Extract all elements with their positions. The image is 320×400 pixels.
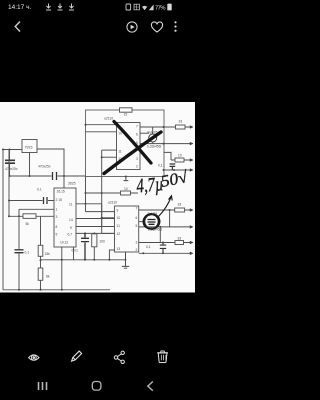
wire lower IC pin12 bbox=[102, 232, 115, 234]
wire 3525 pin14 to pin10 bbox=[76, 218, 115, 220]
wire mid rail W2 bbox=[10, 175, 86, 177]
IC U1 2110 upper bbox=[117, 123, 141, 170]
regulator U3 7915 bbox=[22, 140, 37, 153]
svg-text:1: 1 bbox=[56, 208, 58, 212]
junction dot bbox=[61, 289, 63, 291]
junction dot bbox=[18, 289, 20, 291]
node input B bbox=[9, 149, 11, 151]
svg-text:10,12: 10,12 bbox=[60, 241, 68, 245]
wire pin7 out with R 33 bbox=[140, 126, 190, 128]
junction dot bbox=[40, 289, 42, 291]
right icons bbox=[126, 4, 172, 12]
app bar bbox=[15, 21, 176, 32]
wire IC pin11 bbox=[102, 149, 117, 151]
eye bbox=[29, 355, 39, 360]
wire regulator ground pin bbox=[29, 153, 31, 177]
svg-text:33: 33 bbox=[179, 120, 183, 124]
arrow out 5 bbox=[190, 209, 193, 212]
wire bus to pin11 bbox=[76, 226, 115, 228]
wire pin3 with 5k bbox=[9, 215, 54, 217]
svg-text:7915: 7915 bbox=[25, 146, 33, 150]
svg-text:77%: 77% bbox=[155, 5, 166, 11]
wire out 3 with R 10 bbox=[164, 152, 191, 160]
junction dot bbox=[61, 259, 63, 261]
capacitor C7 0.1 bbox=[160, 243, 166, 254]
svg-text:2: 2 bbox=[136, 165, 138, 169]
bus x101 lower segment bbox=[101, 204, 103, 227]
junction dot bbox=[85, 124, 87, 126]
wire out 7 with R 33 bbox=[139, 242, 190, 244]
X stroke B bbox=[114, 122, 151, 164]
svg-text:14:17 ч.: 14:17 ч. bbox=[8, 4, 31, 11]
svg-text:0,1: 0,1 bbox=[37, 188, 42, 192]
rail out 8 bbox=[139, 252, 190, 254]
junction dot bbox=[85, 192, 87, 194]
wire bottom out rail bbox=[164, 169, 191, 171]
svg-text:33: 33 bbox=[178, 237, 182, 241]
wire into 3525 top bbox=[63, 176, 65, 188]
resistor R5 33 bbox=[176, 125, 186, 129]
wire left rail V1 bbox=[2, 150, 4, 290]
resistor R1 5k bbox=[23, 214, 36, 219]
svg-text:14: 14 bbox=[69, 218, 73, 222]
junction dot bbox=[84, 259, 86, 261]
arrow out 2 bbox=[190, 142, 193, 145]
svg-text:15k: 15k bbox=[45, 252, 51, 256]
svg-text:3: 3 bbox=[136, 157, 138, 161]
arrow out 7 bbox=[190, 241, 193, 244]
photo / schematic area bbox=[0, 102, 195, 293]
junction dot bbox=[125, 259, 127, 261]
svg-text:0,01: 0,01 bbox=[72, 249, 79, 253]
svg-text:6: 6 bbox=[136, 216, 138, 220]
wire mid with R 10 bbox=[86, 192, 139, 194]
node input A bbox=[2, 149, 4, 151]
svg-text:3: 3 bbox=[136, 241, 138, 245]
arrow out 8 bbox=[190, 252, 193, 255]
heart bbox=[151, 22, 162, 32]
wire lower IC pin10 bbox=[102, 217, 115, 219]
capacitor C1 wire bbox=[9, 150, 11, 177]
transistor Q2 BUV26 bbox=[145, 215, 159, 229]
resistor R3 8k bbox=[38, 268, 43, 280]
resistor R6 10 bbox=[175, 158, 184, 162]
junction dot bbox=[93, 259, 95, 261]
svg-text:0,1: 0,1 bbox=[146, 245, 151, 249]
arrow out 6 bbox=[190, 226, 193, 229]
svg-text:3525: 3525 bbox=[68, 182, 76, 186]
bottom rail bbox=[3, 289, 110, 291]
wire out 5 with R 33 bbox=[139, 209, 190, 211]
junction dot bbox=[8, 215, 10, 217]
junction dot bbox=[85, 203, 87, 205]
resistor R4 100 bbox=[92, 234, 97, 247]
wire Q2 emitter link bbox=[159, 227, 161, 243]
svg-text:470x25v: 470x25v bbox=[5, 167, 18, 171]
IC U4 2110 lower bbox=[115, 206, 139, 252]
junction dot bbox=[93, 232, 95, 234]
wire 3525 pin6,7 out bbox=[76, 232, 115, 234]
ground lower IC bbox=[122, 252, 129, 268]
resistor R9 33 bbox=[175, 241, 184, 245]
share bbox=[114, 351, 124, 363]
wire transistor collector upper bbox=[152, 127, 154, 134]
motion photo icon bbox=[127, 22, 137, 32]
svg-text:11: 11 bbox=[117, 224, 121, 228]
svg-text:9: 9 bbox=[117, 209, 119, 213]
svg-text:0,33x45Ω: 0,33x45Ω bbox=[147, 145, 162, 149]
svg-text:3: 3 bbox=[56, 215, 58, 219]
ground upper module bbox=[124, 177, 129, 181]
junction dot bbox=[159, 226, 161, 228]
junction dot bbox=[142, 252, 144, 254]
wire R4 leads bbox=[93, 247, 95, 260]
svg-text:0,1: 0,1 bbox=[158, 164, 163, 168]
wire C3 to pin2 bbox=[9, 200, 54, 202]
junction dot bbox=[101, 217, 103, 219]
arrow out 3 bbox=[190, 159, 193, 162]
annotation circle around Q2 bbox=[142, 213, 160, 230]
wire 3525 pin11 out bbox=[76, 203, 102, 205]
svg-text:7: 7 bbox=[136, 207, 138, 211]
download icon 1 bbox=[46, 4, 74, 11]
junction dot bbox=[29, 175, 31, 177]
svg-text:u2110: u2110 bbox=[104, 117, 113, 121]
arrow out 4 bbox=[190, 169, 193, 172]
junction dot bbox=[101, 192, 103, 194]
junction dot bbox=[125, 176, 127, 178]
wire pin13 jog bbox=[109, 250, 114, 260]
svg-text:10: 10 bbox=[117, 216, 121, 220]
junction dot bbox=[84, 232, 86, 234]
svg-text:0,1: 0,1 bbox=[25, 251, 30, 255]
wire left bus down bbox=[85, 177, 87, 212]
junction dot bbox=[9, 175, 11, 177]
junction dot bbox=[163, 169, 165, 171]
junction dot bbox=[169, 209, 171, 211]
wire lower IC pin9 bbox=[86, 211, 115, 213]
svg-text:12: 12 bbox=[117, 232, 121, 236]
svg-text:10: 10 bbox=[118, 132, 122, 136]
junction dot bbox=[108, 259, 110, 261]
pencil bbox=[70, 351, 81, 362]
nav bar bbox=[39, 382, 153, 391]
svg-text:2: 2 bbox=[136, 248, 138, 252]
X stroke A bbox=[104, 132, 161, 174]
capacitor C3 0.1 bbox=[44, 197, 48, 204]
wire divider bottom bbox=[40, 280, 42, 290]
capacitor C1 470x25v bbox=[5, 160, 15, 163]
wire 19 down to C5 bbox=[18, 209, 20, 289]
svg-text:5k: 5k bbox=[26, 222, 30, 226]
wire IC pin12 bbox=[102, 156, 117, 158]
svg-text:10: 10 bbox=[124, 187, 128, 191]
upper module box bbox=[86, 110, 165, 177]
junction dot bbox=[162, 252, 164, 254]
capacitor C4 bbox=[81, 233, 89, 259]
annotation arrow bbox=[158, 196, 172, 217]
fuse F1 15 bbox=[120, 108, 133, 112]
transistor Q1 BUV26 bbox=[149, 134, 157, 142]
svg-text:15: 15 bbox=[124, 113, 128, 117]
svg-text:u2110: u2110 bbox=[108, 201, 117, 205]
junction dot bbox=[101, 156, 103, 158]
Q2 internal bars bbox=[148, 220, 156, 225]
wire IC pin6 to base bbox=[140, 132, 149, 134]
svg-text:11: 11 bbox=[118, 150, 122, 154]
wire IC pin10 bbox=[86, 131, 117, 133]
junction dot bbox=[162, 242, 164, 244]
IC U2 SG3525 bbox=[54, 188, 76, 247]
resistor R7 10 bbox=[121, 191, 131, 195]
wire left rail V2 lower bbox=[8, 150, 10, 217]
svg-text:8: 8 bbox=[56, 225, 58, 229]
ground rail bbox=[41, 259, 126, 261]
junction dot bbox=[163, 126, 165, 128]
status bar bbox=[8, 4, 172, 12]
svg-text:13: 13 bbox=[117, 247, 121, 251]
wire divider mid bbox=[40, 256, 42, 268]
wire input top-left bbox=[2, 149, 22, 151]
capacitor C5 0.1 bbox=[15, 250, 24, 253]
svg-text:100: 100 bbox=[99, 240, 105, 244]
svg-text:6,7: 6,7 bbox=[68, 233, 73, 237]
svg-text:470x25v: 470x25v bbox=[38, 165, 51, 169]
wire out 6 bbox=[139, 227, 190, 229]
wire 3525 bottom pins bbox=[62, 247, 74, 290]
svg-text:11: 11 bbox=[69, 203, 73, 207]
svg-text:9: 9 bbox=[70, 226, 72, 230]
arrow out 1 bbox=[190, 126, 193, 129]
svg-text:2 15: 2 15 bbox=[56, 198, 63, 202]
wire regulator output bbox=[37, 149, 64, 176]
junction dot bbox=[173, 169, 175, 171]
wire pin1 feedback bbox=[19, 208, 54, 210]
svg-text:8k: 8k bbox=[46, 275, 50, 279]
svg-text:5: 5 bbox=[56, 233, 58, 237]
wire lower IC base bbox=[139, 221, 145, 223]
junction dot bbox=[18, 215, 20, 217]
wire emitter vertical bbox=[169, 210, 171, 227]
junction dot divider bbox=[40, 259, 42, 261]
bottom toolbar bbox=[29, 351, 168, 363]
svg-text:7: 7 bbox=[136, 125, 138, 129]
svg-text:6: 6 bbox=[136, 133, 138, 137]
3 dots bbox=[174, 21, 176, 32]
junction dot bbox=[63, 175, 65, 177]
svg-text:16,15: 16,15 bbox=[57, 190, 65, 194]
svg-text:10: 10 bbox=[178, 154, 182, 158]
resistor R2 15k bbox=[38, 245, 43, 256]
wire emitter out bbox=[140, 142, 190, 144]
svg-text:5: 5 bbox=[136, 224, 138, 228]
resistor R8 33 bbox=[175, 208, 185, 212]
svg-text:33: 33 bbox=[178, 203, 182, 207]
junction dot bbox=[8, 200, 10, 202]
trash bbox=[157, 351, 168, 363]
capacitor C6 0.1 bbox=[170, 164, 176, 170]
bus x101 bbox=[101, 150, 103, 233]
junction dot bbox=[163, 143, 165, 145]
capacitor C2 bbox=[53, 172, 57, 180]
wire IC pin9 bbox=[86, 124, 117, 126]
wire divider top bbox=[40, 216, 42, 245]
